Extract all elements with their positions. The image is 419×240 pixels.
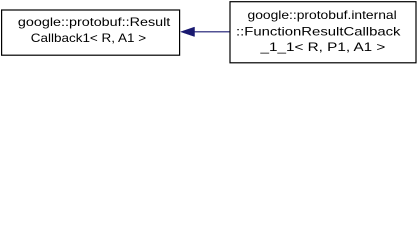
class box: google::protobuf::ResultCallback1 (base class): [2, 10, 180, 55]
svg-text:google::protobuf::Result: google::protobuf::Result: [18, 15, 171, 29]
svg-text:_1_1< R, P1, A1 >: _1_1< R, P1, A1 >: [259, 40, 385, 54]
svg-text:::FunctionResultCallback: ::FunctionResultCallback: [236, 24, 402, 38]
inheritance arrow: from derived box to base box: [181, 27, 230, 36]
svg-text:google::protobuf.internal: google::protobuf.internal: [248, 8, 397, 22]
arrowhead pointing left: [181, 27, 195, 36]
svg-text:Callback1< R, A1 >: Callback1< R, A1 >: [31, 31, 146, 45]
class box: google::protobuf::internal::FunctionResultCallback_1_1 (derived class): [230, 2, 416, 63]
wire: arrow shaft: [194, 31, 230, 33]
